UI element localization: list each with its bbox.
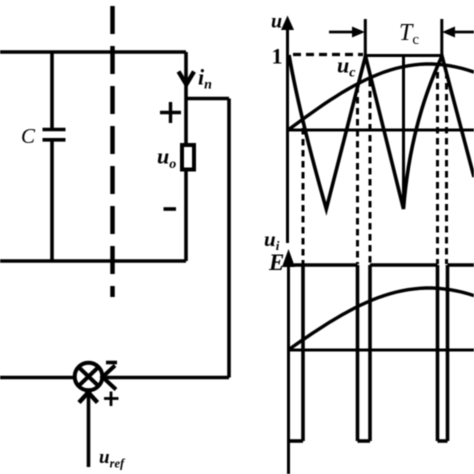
pwm notch2 bottom [358, 439, 371, 443]
wire summing input left [0, 376, 76, 380]
Tc right boundary [440, 19, 443, 58]
wire capacitor bottom lead [50, 140, 54, 261]
Tc right arrow [442, 27, 474, 38]
wire right branch [184, 52, 188, 261]
label plus reference [104, 392, 119, 407]
construction dash x4 [436, 72, 439, 264]
envelope sine bottom [288, 288, 474, 350]
wire summing input right [102, 376, 229, 380]
boundary dashed line [110, 6, 115, 297]
current arrow i_n [179, 72, 195, 85]
Tc mid tick [402, 55, 405, 200]
resistor u_o [182, 145, 194, 170]
construction dash x2 [356, 86, 359, 264]
arrowhead into summing right [103, 366, 117, 390]
pwm top segment 3 [448, 263, 474, 267]
construction dash x1 [302, 117, 305, 264]
carrier triangle wave [289, 55, 474, 209]
svg-text:1: 1 [272, 44, 283, 69]
pwm notch1 bottom [287, 439, 303, 443]
axis u vertical [286, 22, 289, 243]
svg-text:u: u [271, 11, 282, 33]
svg-text:E: E [268, 250, 284, 275]
wire top bus [0, 50, 186, 54]
capacitor C [43, 130, 66, 140]
axis u_i arrowhead [282, 249, 295, 267]
construction dash x3 [369, 80, 372, 264]
axis u arrowhead [281, 16, 294, 31]
wire feedback stub [186, 97, 229, 101]
pwm notch3 right edge [446, 265, 450, 441]
pwm notch3 left edge [436, 265, 440, 441]
arrowhead u_ref up [79, 390, 98, 403]
pwm notch2 left edge [356, 265, 360, 441]
wire u_ref [87, 392, 91, 467]
summing junction [75, 363, 103, 391]
label plus polarity [160, 102, 181, 123]
axis t baseline top plot [288, 129, 474, 132]
axis u_i vertical [287, 254, 290, 474]
label minus polarity [164, 207, 177, 211]
pwm top segment 2 [370, 263, 438, 267]
level-1 segment between peaks [365, 54, 442, 57]
Tc left arrow [329, 27, 365, 38]
label minus feedback [106, 361, 117, 365]
reference sine top [288, 64, 474, 130]
wire capacitor top lead [50, 52, 54, 129]
svg-text:C: C [21, 124, 36, 148]
pwm notch2 right edge [368, 265, 372, 441]
Tc left boundary [364, 19, 367, 58]
dashed level-1 line [293, 53, 363, 56]
axis t baseline bottom plot [289, 349, 474, 352]
pwm notch3 bottom [438, 439, 448, 443]
pwm notch1 right edge [301, 265, 305, 441]
wire bottom bus [0, 259, 186, 263]
wire feedback vertical [227, 99, 231, 378]
construction dash x5 [445, 72, 448, 264]
pwm top segment 1 [294, 263, 358, 267]
